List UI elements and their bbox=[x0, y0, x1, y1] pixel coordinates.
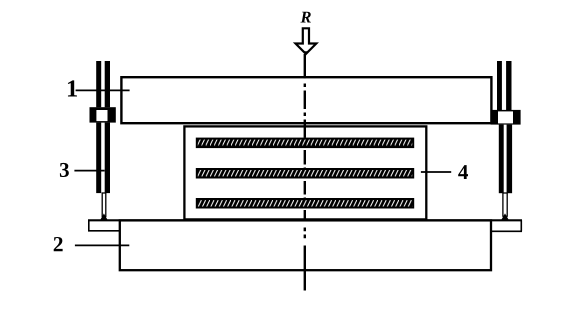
right dial indicator: upper stem bbox=[497, 61, 502, 110]
leader line 2 bbox=[75, 244, 129, 246]
right dial indicator: clamp block bbox=[491, 110, 521, 125]
platen line (plate top surface, ledge to ledge) bbox=[88, 219, 522, 221]
left dial indicator: lower barrel bbox=[96, 123, 101, 194]
label 2 bbox=[54, 237, 63, 251]
leader line 4 bbox=[421, 171, 451, 173]
bottom plate 2 bbox=[120, 220, 491, 270]
left dial indicator: clamp block bbox=[90, 107, 116, 122]
specimen bar middle bbox=[197, 169, 413, 178]
specimen bar bottom bbox=[197, 199, 413, 208]
left dial indicator: needle bbox=[102, 193, 106, 216]
label 3 bbox=[60, 163, 69, 177]
label 4 bbox=[458, 165, 468, 179]
label 1 bbox=[68, 80, 77, 96]
centerline (dash-dot axis) bbox=[304, 54, 306, 291]
leader line 3 bbox=[74, 170, 104, 172]
arrow apex tip bbox=[303, 51, 308, 55]
right dial indicator: lower barrel bbox=[499, 125, 504, 194]
left dial indicator: upper stem bbox=[96, 61, 101, 107]
right ledge bbox=[490, 220, 522, 231]
left ledge bbox=[88, 220, 121, 231]
leader line 1 bbox=[76, 89, 130, 91]
right dial indicator: needle bbox=[503, 193, 507, 216]
specimen bar top bbox=[197, 139, 413, 148]
specimen box 4 bbox=[184, 126, 426, 219]
load arrow (hollow) bbox=[296, 28, 317, 54]
load label R bbox=[300, 12, 310, 23]
top plate 1 bbox=[121, 77, 491, 123]
